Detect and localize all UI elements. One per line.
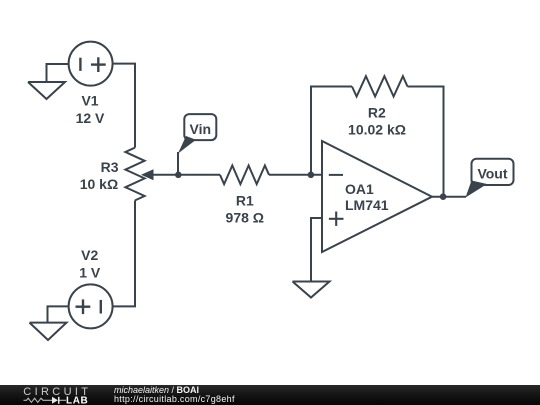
svg-text:1 V: 1 V bbox=[79, 264, 101, 280]
svg-text:Vin: Vin bbox=[190, 121, 212, 137]
svg-text:12 V: 12 V bbox=[76, 110, 105, 126]
svg-text:LAB: LAB bbox=[66, 396, 88, 405]
svg-text:V2: V2 bbox=[81, 247, 98, 263]
svg-text:Vout: Vout bbox=[477, 165, 507, 181]
svg-text:978 Ω: 978 Ω bbox=[226, 209, 264, 225]
svg-text:V1: V1 bbox=[81, 93, 98, 109]
svg-text:10.02 kΩ: 10.02 kΩ bbox=[348, 122, 406, 138]
svg-text:R2: R2 bbox=[368, 104, 386, 120]
svg-text:R3: R3 bbox=[101, 159, 119, 175]
svg-text:OA1: OA1 bbox=[345, 181, 374, 197]
svg-text:10 kΩ: 10 kΩ bbox=[80, 176, 118, 192]
svg-text:LM741: LM741 bbox=[345, 197, 389, 213]
svg-text:R1: R1 bbox=[236, 192, 254, 208]
